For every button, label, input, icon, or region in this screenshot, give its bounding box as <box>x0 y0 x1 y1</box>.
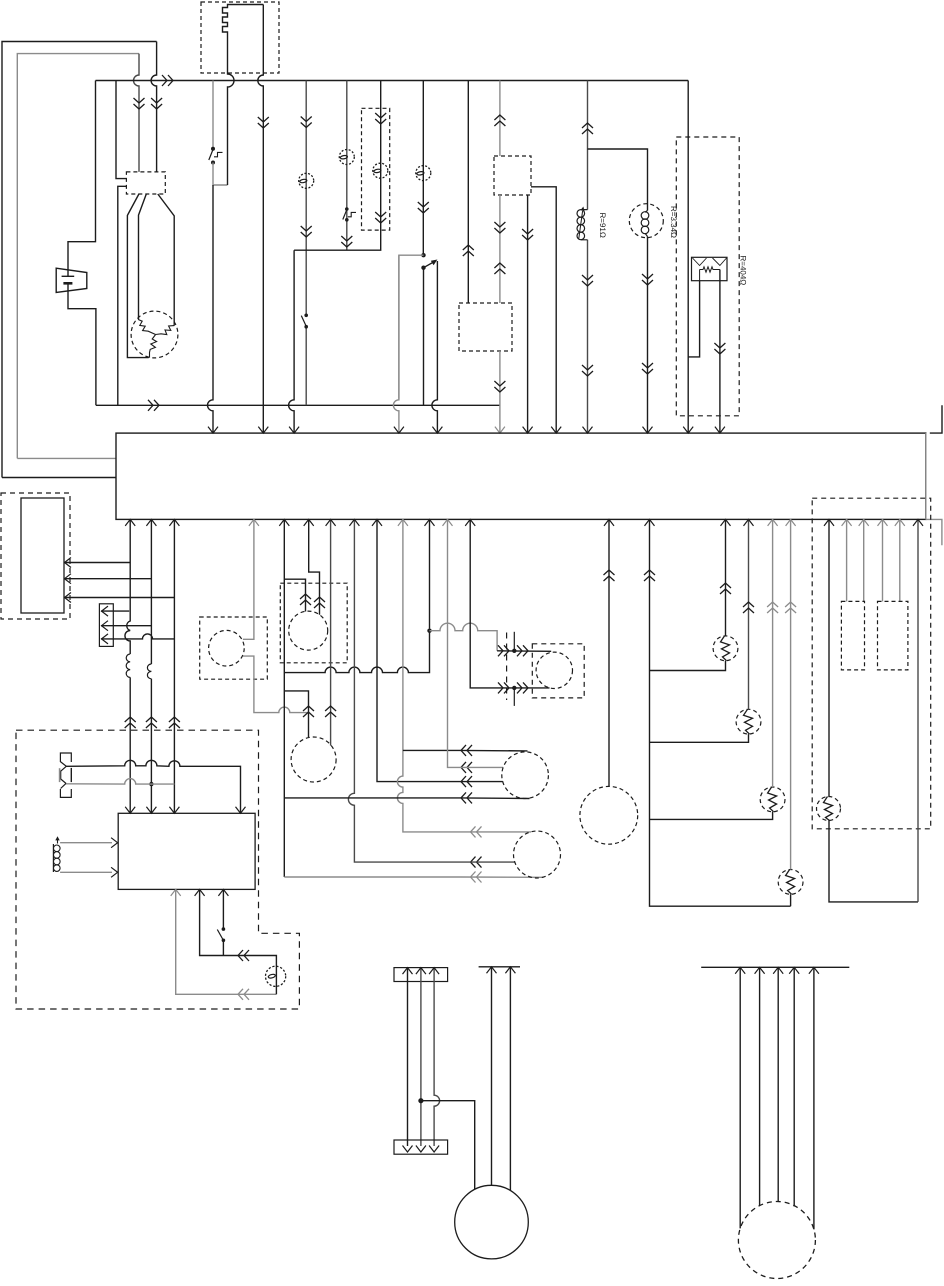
wire x863 gray <box>863 519 865 601</box>
arrowhead connector 3 <box>102 634 109 644</box>
lamp A <box>299 173 314 188</box>
dashed box lower (E/F) <box>459 303 512 351</box>
wire x899 gray <box>899 519 901 601</box>
small dashed box 2 <box>878 601 908 670</box>
arrowhead rh1 <box>735 967 745 974</box>
clip 2 chevrons <box>498 682 528 693</box>
relay junction dot D <box>421 253 425 257</box>
arrowhead rh3 <box>773 967 783 974</box>
clip 1 dot <box>512 649 516 653</box>
label R=91 <box>598 213 607 238</box>
relay armature dot <box>421 266 425 270</box>
wire I from top bus end <box>687 81 689 433</box>
cascade branch 1 <box>650 661 726 671</box>
header H1 bottom rect <box>394 1140 448 1154</box>
switch S2 dots <box>345 207 349 221</box>
gauge Ma dashed circle <box>289 611 328 650</box>
arrowhead into relay box top at x213 <box>208 427 218 434</box>
module output gray wire <box>176 889 277 994</box>
arrowhead x609 into junction box <box>604 519 614 526</box>
wire RB3 up gray <box>772 519 774 787</box>
arrowhead x151 onto coil box <box>146 807 156 814</box>
chevron on generator wire 2 <box>134 98 145 109</box>
arrowhead into cluster 2 <box>65 574 72 584</box>
arrowhead RB1 into junction box <box>721 519 731 526</box>
top bus connector chevron <box>162 75 173 86</box>
wire h2 tail gray <box>460 766 503 768</box>
chevron F mid down <box>494 222 505 233</box>
wire RB2 up <box>748 519 750 709</box>
arrowhead header b top <box>416 968 426 975</box>
clip 1 stub <box>513 632 515 651</box>
chevron Ma right <box>314 597 325 608</box>
arrowhead connector 2 <box>102 621 109 631</box>
generator G1 body left lead <box>127 194 148 358</box>
wire x829 with resistor RB5 <box>828 519 830 796</box>
chevron RB2 <box>743 602 754 613</box>
arrowhead into relay box top at x556 <box>551 427 561 434</box>
switch S2 lever <box>343 210 347 220</box>
dashed box around lamp C <box>362 108 390 230</box>
chevron H mid <box>582 275 593 286</box>
wire H from top bus <box>587 81 589 433</box>
arrowhead into relay box top at x500 <box>495 427 505 434</box>
clip 2 dot <box>512 686 516 690</box>
instrument wire C from top bus <box>294 81 381 251</box>
switch S3 dots on wire A <box>304 314 308 329</box>
starter motor circle <box>455 1185 529 1259</box>
lamp D <box>416 166 431 181</box>
module switch lower stub <box>222 940 224 955</box>
clip dashed box <box>532 644 584 698</box>
chevron Ma left <box>300 594 311 605</box>
arrowhead x649 into junction box <box>645 519 655 526</box>
arrowhead into cluster 1 <box>65 558 72 568</box>
bottom-right stub gray <box>926 519 942 545</box>
module switch lever <box>217 930 223 941</box>
wire h6 tail <box>460 861 515 863</box>
chevron RB3 <box>767 602 778 613</box>
fusible link return wire down through buses <box>258 5 264 433</box>
top-right stub <box>930 405 942 433</box>
wire x377 from junction box <box>377 519 460 781</box>
lower bus connector chevron <box>148 400 159 411</box>
chevron E up <box>463 245 474 256</box>
stub from generator connector to lower bus <box>118 186 127 405</box>
arrowhead into cluster 3 <box>65 593 72 603</box>
wire x829 lower <box>829 821 918 902</box>
switch S2 thermal step <box>348 212 356 216</box>
clip dashed interface line <box>506 633 508 701</box>
arrowhead RB4 into junction box <box>786 519 796 526</box>
chevron x151 <box>146 717 157 728</box>
wire x429 from junction box <box>429 519 431 628</box>
chevron x130 <box>125 717 136 728</box>
chevron h4 <box>461 792 472 803</box>
arrowhead RB3 into junction box <box>768 519 778 526</box>
wire RB4 down stub <box>790 894 792 906</box>
header wire c <box>434 968 440 1146</box>
wire h7 tail <box>460 876 544 878</box>
right dashed box <box>812 498 931 829</box>
wire x330 from junction box <box>330 519 332 745</box>
arrowhead x130 into junction box <box>125 519 135 526</box>
chevron h5 <box>471 826 482 837</box>
central junction box <box>116 433 926 519</box>
chevron h7 <box>471 872 482 883</box>
resistor box R=404 <box>692 257 728 280</box>
chevron C upper <box>375 113 386 124</box>
ignition dashed box outline <box>16 730 299 1009</box>
branch wire to R3.34 <box>588 149 648 432</box>
cluster line 2 <box>64 578 151 580</box>
resistor R=91 arrow <box>579 207 585 239</box>
clip line 1 <box>497 650 551 653</box>
motor M2 dashed circle <box>514 831 561 878</box>
arrowhead rh4 <box>789 967 799 974</box>
ignition switch feed (gray) from top bus <box>212 81 214 148</box>
arrowhead header a top <box>403 968 413 975</box>
arrowhead into relay box top at x719 <box>715 427 725 434</box>
wire x354 from junction box <box>348 519 460 862</box>
clip 1 chevrons <box>498 645 528 656</box>
top dashed box (fusible link) <box>201 2 279 73</box>
right header wire 4 <box>793 967 795 1206</box>
lamp C <box>373 163 388 178</box>
wire x284 from junction box <box>284 519 460 877</box>
chevron x649 <box>644 570 655 581</box>
wire from box G bottom <box>527 195 529 432</box>
chevron M3 left <box>303 706 314 717</box>
switch S1 lever <box>209 150 213 161</box>
arrowhead pickup bottom <box>111 867 118 877</box>
blower resistor RB5 <box>817 797 841 821</box>
motor M0 dashed circle <box>502 752 549 799</box>
wire x470 from junction box <box>470 519 497 688</box>
relay branch drop <box>393 255 398 432</box>
chevron B lower <box>341 236 352 247</box>
wire x846 gray <box>846 519 848 601</box>
ignition module box <box>118 813 255 889</box>
small connector box <box>99 604 113 647</box>
chevron R404 out <box>714 343 725 354</box>
generator stator dashed circle <box>131 311 178 358</box>
chevron module dark <box>238 950 249 961</box>
blower resistor RB4 <box>778 870 803 895</box>
mid header wire 2 <box>509 967 511 1191</box>
chevron C lower <box>375 212 386 223</box>
R404 element <box>700 267 720 272</box>
arrowhead x829 into junction box <box>824 519 834 526</box>
pickup lead bottom gray <box>60 871 112 873</box>
fusible link comb wire up from switch loop <box>223 5 264 186</box>
arrowheads header bottom <box>403 1146 440 1153</box>
junction dot x151 P2 <box>149 782 153 786</box>
arrowhead x377 into junction box <box>372 519 382 526</box>
label R=404 <box>739 256 748 286</box>
chevron on generator wire 1 <box>151 98 162 109</box>
wire outer loop drop through top bus to generator connector <box>151 42 157 172</box>
arrowhead x174 into junction box <box>169 519 179 526</box>
stator winding resistor bottom <box>150 335 157 358</box>
instrument wire B from top bus <box>346 81 348 251</box>
wire F (gray) from top bus <box>499 81 501 157</box>
tall dashed box right <box>676 137 739 416</box>
plug connector symbol <box>60 753 72 797</box>
switch S1 lower wire <box>213 163 228 186</box>
motor M1 dashed circle <box>580 786 638 844</box>
wire h672 from x284 <box>284 631 429 673</box>
wire h4 tail <box>460 797 530 800</box>
wire E from top bus <box>467 81 469 304</box>
left solid box <box>21 498 64 613</box>
arrowhead into relay box top at x527 <box>523 427 533 434</box>
arrowhead rh5 <box>809 967 819 974</box>
arrowhead x402 into junction box <box>398 519 408 526</box>
module switch dots <box>222 927 226 942</box>
arrowhead module dark <box>195 889 205 896</box>
blower resistor RB2 <box>736 709 761 734</box>
wire x402 gray distribution <box>397 519 460 832</box>
arrowhead x354 into junction box <box>349 519 359 526</box>
lamp B <box>339 150 354 165</box>
chevron A upper <box>301 117 312 128</box>
chevron on fusible return <box>258 117 269 128</box>
arrowhead x447 into junction box <box>443 519 453 526</box>
wire x918 <box>917 519 919 902</box>
chevron F mid up <box>494 263 505 274</box>
chevron F lower <box>494 381 505 392</box>
chevron x330 <box>325 706 336 717</box>
arrowhead x899 <box>895 519 905 526</box>
wire h1 tail <box>460 749 528 752</box>
chevron module gray <box>238 989 249 1000</box>
instrument wire D from top bus <box>422 81 424 254</box>
gauge Ma dashed box <box>280 583 347 663</box>
svg-text:R=91Ω: R=91Ω <box>598 213 607 238</box>
top bus wire <box>96 80 689 82</box>
clip 2 stub <box>513 688 515 706</box>
cluster line 1 <box>64 562 130 564</box>
chevron branch mid <box>642 274 653 285</box>
chevron branch low <box>642 363 653 374</box>
branch to gauge Ma <box>284 579 305 611</box>
generator G1 body mid lead <box>139 194 147 320</box>
wire C drop to relay box <box>289 250 295 432</box>
right header wire 3 <box>777 967 779 1201</box>
plug lead P2 gray <box>66 779 174 785</box>
module output dark wire <box>200 889 277 994</box>
instrument wire A from top bus <box>305 81 307 406</box>
wire battery positive to top bus <box>68 81 96 277</box>
wire x174 from junction box <box>173 519 175 812</box>
cluster line 3 <box>64 597 174 599</box>
switch S3 lever <box>301 316 306 327</box>
arrowhead x882 <box>878 519 888 526</box>
tab instrument dashed circle <box>209 630 245 666</box>
battery BAT1 housing <box>56 268 87 292</box>
header wire b <box>420 968 422 1146</box>
resistor R=91 coil <box>577 210 588 240</box>
arrowhead into relay box top at x294 <box>289 427 299 434</box>
lamp L1 circle <box>266 966 286 986</box>
wire inner loop drop to generator connector <box>134 54 140 172</box>
arrowhead x470 into junction box <box>465 519 475 526</box>
generator G1 body right lead <box>158 194 174 326</box>
switch S1 thermal step <box>214 152 223 156</box>
arrowhead P1 onto coil box <box>236 807 246 814</box>
blower motor dashed circle <box>738 1202 815 1279</box>
chevron H up <box>582 123 593 134</box>
connector line 2 <box>101 625 151 627</box>
chevron A lower <box>301 226 312 237</box>
connector line 3 <box>101 634 174 639</box>
wire x609 from junction box <box>608 519 610 786</box>
arrowhead x130 onto coil box <box>125 807 135 814</box>
arrowhead x253 into junction box <box>249 519 259 526</box>
wire RB4 up gray <box>790 519 792 869</box>
arrowhead connector 1 <box>102 606 109 616</box>
svg-text:R=404Ω: R=404Ω <box>739 256 748 286</box>
chevron h3 <box>461 776 472 787</box>
coil R=3.34 <box>641 211 649 237</box>
chevron h6 <box>471 857 482 868</box>
chevron D <box>418 202 429 213</box>
arrowhead x863 <box>859 519 869 526</box>
arrowhead module switch <box>218 889 228 896</box>
R404 V marks <box>693 258 727 266</box>
lower bus wire <box>96 404 500 406</box>
blower resistor RB1 <box>713 636 738 661</box>
right header line <box>701 966 849 968</box>
arrowhead mid 1 <box>487 967 497 974</box>
arrowhead into relay box top at x437 <box>432 427 442 434</box>
gray wire x253 from junction box <box>243 519 309 712</box>
arrowhead into relay box top at x587 <box>583 427 593 434</box>
arrowhead pickup top <box>111 838 118 848</box>
switch S1 contact dots <box>211 147 215 165</box>
clip line 2 <box>497 687 550 689</box>
cascade main wire x649 <box>650 519 791 906</box>
pickup coil symbol <box>53 844 60 872</box>
wire h1 from x402 <box>403 749 460 751</box>
mid header wire 1 <box>491 967 493 1186</box>
junction dot wavy <box>427 629 431 633</box>
wire x882 gray <box>882 519 884 601</box>
arrowhead into relay box top at x647 <box>643 427 653 434</box>
pickup coil arrow <box>55 836 59 843</box>
header wire a <box>407 968 409 1146</box>
chevron H low <box>582 365 593 376</box>
chevron h2 <box>461 762 472 773</box>
wire battery negative to lower bus <box>68 284 96 406</box>
arrowhead x308 into junction box <box>304 519 314 526</box>
wire from battery circuit upper-left outer loop <box>2 42 157 478</box>
battery plates <box>62 276 75 283</box>
module switch wire <box>222 889 224 928</box>
relay branch (gray) to box <box>399 255 424 399</box>
dashed connector box G <box>494 156 531 195</box>
connector line 1 <box>101 610 129 612</box>
chevron G2 <box>522 229 533 240</box>
wire x130 from junction box <box>125 519 130 812</box>
wire x447 gray from junction box <box>448 519 461 767</box>
stub from top bus into generator connector <box>116 81 126 179</box>
wire F below box G <box>499 195 501 303</box>
wire h5 tail gray <box>460 831 531 833</box>
arrowhead into relay box top at x263 <box>258 427 268 434</box>
wire h4 from x284 <box>284 797 460 799</box>
R404 leads <box>700 270 720 433</box>
right header wire 5 <box>813 967 815 1229</box>
pickup lead top gray <box>60 842 112 844</box>
branch to R404 box <box>688 281 699 357</box>
stator winding resistor left <box>138 320 155 335</box>
arrowhead into relay box top at x688 <box>683 427 693 434</box>
arrowhead header c top <box>429 968 439 975</box>
gauge M3 dashed circle <box>291 737 336 782</box>
arrowhead rh2 <box>755 967 765 974</box>
blower resistor RB3 <box>760 787 785 812</box>
relay output wire <box>432 261 437 432</box>
arrowhead module gray <box>171 889 181 896</box>
arrowhead x151 into junction box <box>146 519 156 526</box>
wire inner loop (gray) from fuse box to generator <box>17 54 139 459</box>
small dashed box 1 <box>841 601 864 670</box>
chevron x609 <box>604 570 615 581</box>
tab instrument dashed box <box>200 617 268 679</box>
wire RB1 up <box>725 519 727 636</box>
header H1 top rect <box>394 968 448 982</box>
arrowhead x330 into junction box <box>326 519 336 526</box>
generator connector dashed box <box>126 172 165 194</box>
chevron RB4 <box>785 602 796 613</box>
arrowhead x429 into junction box <box>425 519 435 526</box>
chevron F up <box>494 115 505 126</box>
wire F to relay box <box>499 351 501 432</box>
left dashed box <box>1 493 70 619</box>
plug lead P1 <box>66 760 240 812</box>
right header wire 2 <box>759 967 761 1205</box>
branch to gauge M3 <box>284 691 308 737</box>
label R=3.34 <box>669 206 678 238</box>
wire x308 jog from junction box <box>309 519 320 614</box>
relay common wire to lower bus <box>423 269 425 405</box>
wire h3 tail <box>460 781 503 783</box>
wire from box G right side <box>531 187 556 432</box>
mid header line <box>479 966 520 968</box>
cascade branch 2 <box>650 734 749 742</box>
junction dot header <box>418 1098 423 1103</box>
stator winding resistor right <box>156 326 175 335</box>
relay armature lever with arrowhead <box>424 260 438 268</box>
chevron h1 <box>461 745 472 756</box>
cascade branch 3 <box>650 812 773 820</box>
arrowhead x846 <box>842 519 852 526</box>
junction box right edge gray <box>925 433 927 519</box>
right header wire 1 <box>739 967 741 1228</box>
wire from switch loop down to relay box <box>208 185 214 432</box>
chevron x174 <box>169 717 180 728</box>
arrowhead mid 2 <box>505 967 515 974</box>
arrowhead x918 into junction box <box>913 519 923 526</box>
wavy gray wire to clip <box>430 623 498 651</box>
dashed circle R=3.34 <box>629 204 663 238</box>
arrowhead x284 into junction box <box>279 519 289 526</box>
arrowhead x174 onto coil box <box>169 807 179 814</box>
branch to starter circle <box>421 1101 475 1190</box>
clip dashed circle <box>536 652 572 688</box>
